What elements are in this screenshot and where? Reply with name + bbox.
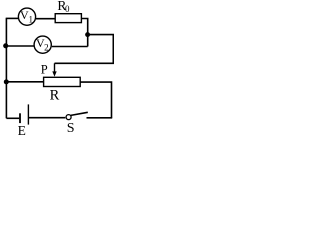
wire: rail to rheostat R [6, 81, 43, 83]
rheostat R [44, 77, 81, 86]
svg-text:0: 0 [65, 4, 70, 14]
svg-text:1: 1 [29, 14, 34, 24]
voltmeter V2 [34, 36, 51, 53]
background [0, 0, 114, 135]
wire: dot to right rail upper, down, and slider wire [55, 35, 114, 64]
wire: top row left (rail to V1) [6, 17, 19, 19]
wire: V2 to vertical [52, 46, 88, 48]
node: left rail dot rheostat row [4, 79, 9, 84]
wire: battery to switch [28, 117, 65, 119]
svg-text:R: R [50, 88, 60, 104]
switch S pivot circle [66, 115, 71, 120]
wire: rail to V2 [6, 45, 34, 47]
voltmeter V1 [18, 8, 35, 25]
slider arrow P onto rheostat [54, 63, 56, 74]
battery E: long plate [27, 104, 29, 124]
wire: R0 right exit to vertical [81, 19, 87, 47]
svg-text:E: E [18, 123, 26, 135]
battery E: short plate [19, 113, 21, 123]
resistor R0 [55, 14, 81, 23]
node: junction dot right [85, 32, 90, 37]
wire: switch to right rail [87, 117, 113, 119]
wire: rheostat right to right rail lower [80, 82, 111, 118]
svg-text:2: 2 [44, 43, 49, 53]
svg-text:P: P [41, 63, 48, 77]
wire: V1 to R0 [36, 18, 55, 20]
wire: left rail [5, 18, 7, 118]
svg-text:S: S [67, 121, 75, 135]
switch S lever [71, 112, 88, 115]
wire: bottom row left (rail to battery) [6, 117, 19, 119]
node: left rail dot row2 [3, 43, 8, 48]
